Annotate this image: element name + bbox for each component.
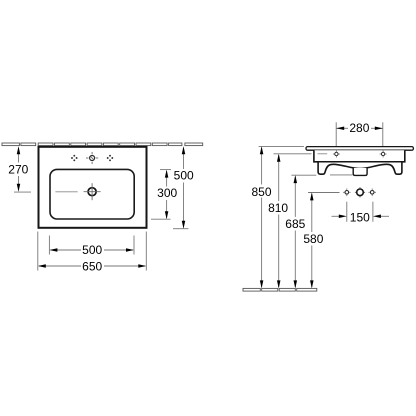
dim 500 vertical (right of top view) (173, 146, 194, 229)
svg-text:270: 270 (8, 163, 28, 177)
svg-text:280: 280 (349, 121, 369, 135)
apron bottom edge line (314, 161, 405, 163)
apron hole right (diamond) (380, 151, 387, 158)
wall tile line (top view) (2, 143, 203, 146)
svg-text:810: 810 (268, 201, 288, 215)
svg-text:650: 650 (82, 260, 102, 274)
dim 500 horizontal (bowl width) (49, 236, 134, 257)
faucet hole centre (circle with ticks) (86, 152, 98, 164)
svg-text:500: 500 (174, 169, 194, 183)
svg-text:850: 850 (251, 185, 271, 199)
console slab (front view) (306, 147, 413, 151)
drain centreline dash (55, 191, 77, 193)
basin apron (front view) (314, 150, 405, 162)
drain (circle with crosshair) (84, 183, 101, 200)
waste hole centre (circle) (355, 187, 365, 197)
inner bowl (top view) (50, 169, 134, 219)
fixing hole right (diamond) (368, 189, 376, 197)
dim 650 (overall width) (38, 232, 147, 274)
dim 280 (top) (336, 121, 383, 146)
svg-text:300: 300 (157, 186, 177, 200)
faucet hole left (4-dot) (71, 155, 78, 162)
dim 270 (left) (8, 146, 31, 192)
apron centreline dash (318, 153, 328, 155)
svg-text:500: 500 (82, 243, 102, 257)
underside profile with feet (318, 162, 402, 174)
svg-text:580: 580 (303, 232, 323, 246)
dim 300 (right of top view) (151, 170, 178, 220)
floor tile line (243, 288, 317, 291)
basin outer rim (top view) (39, 147, 147, 228)
dim 810 (268, 154, 311, 289)
svg-text:150: 150 (350, 210, 370, 224)
dim 685 (285, 175, 352, 289)
dim 580 (303, 192, 339, 288)
drain trap block (353, 168, 367, 175)
svg-text:685: 685 (285, 217, 305, 231)
dim 150 (332, 202, 390, 225)
fixing hole left (diamond) (343, 189, 351, 197)
faucet hole right (4-dot) (107, 155, 114, 162)
dim 850 (251, 146, 303, 288)
apron hole left (diamond) (333, 151, 340, 158)
